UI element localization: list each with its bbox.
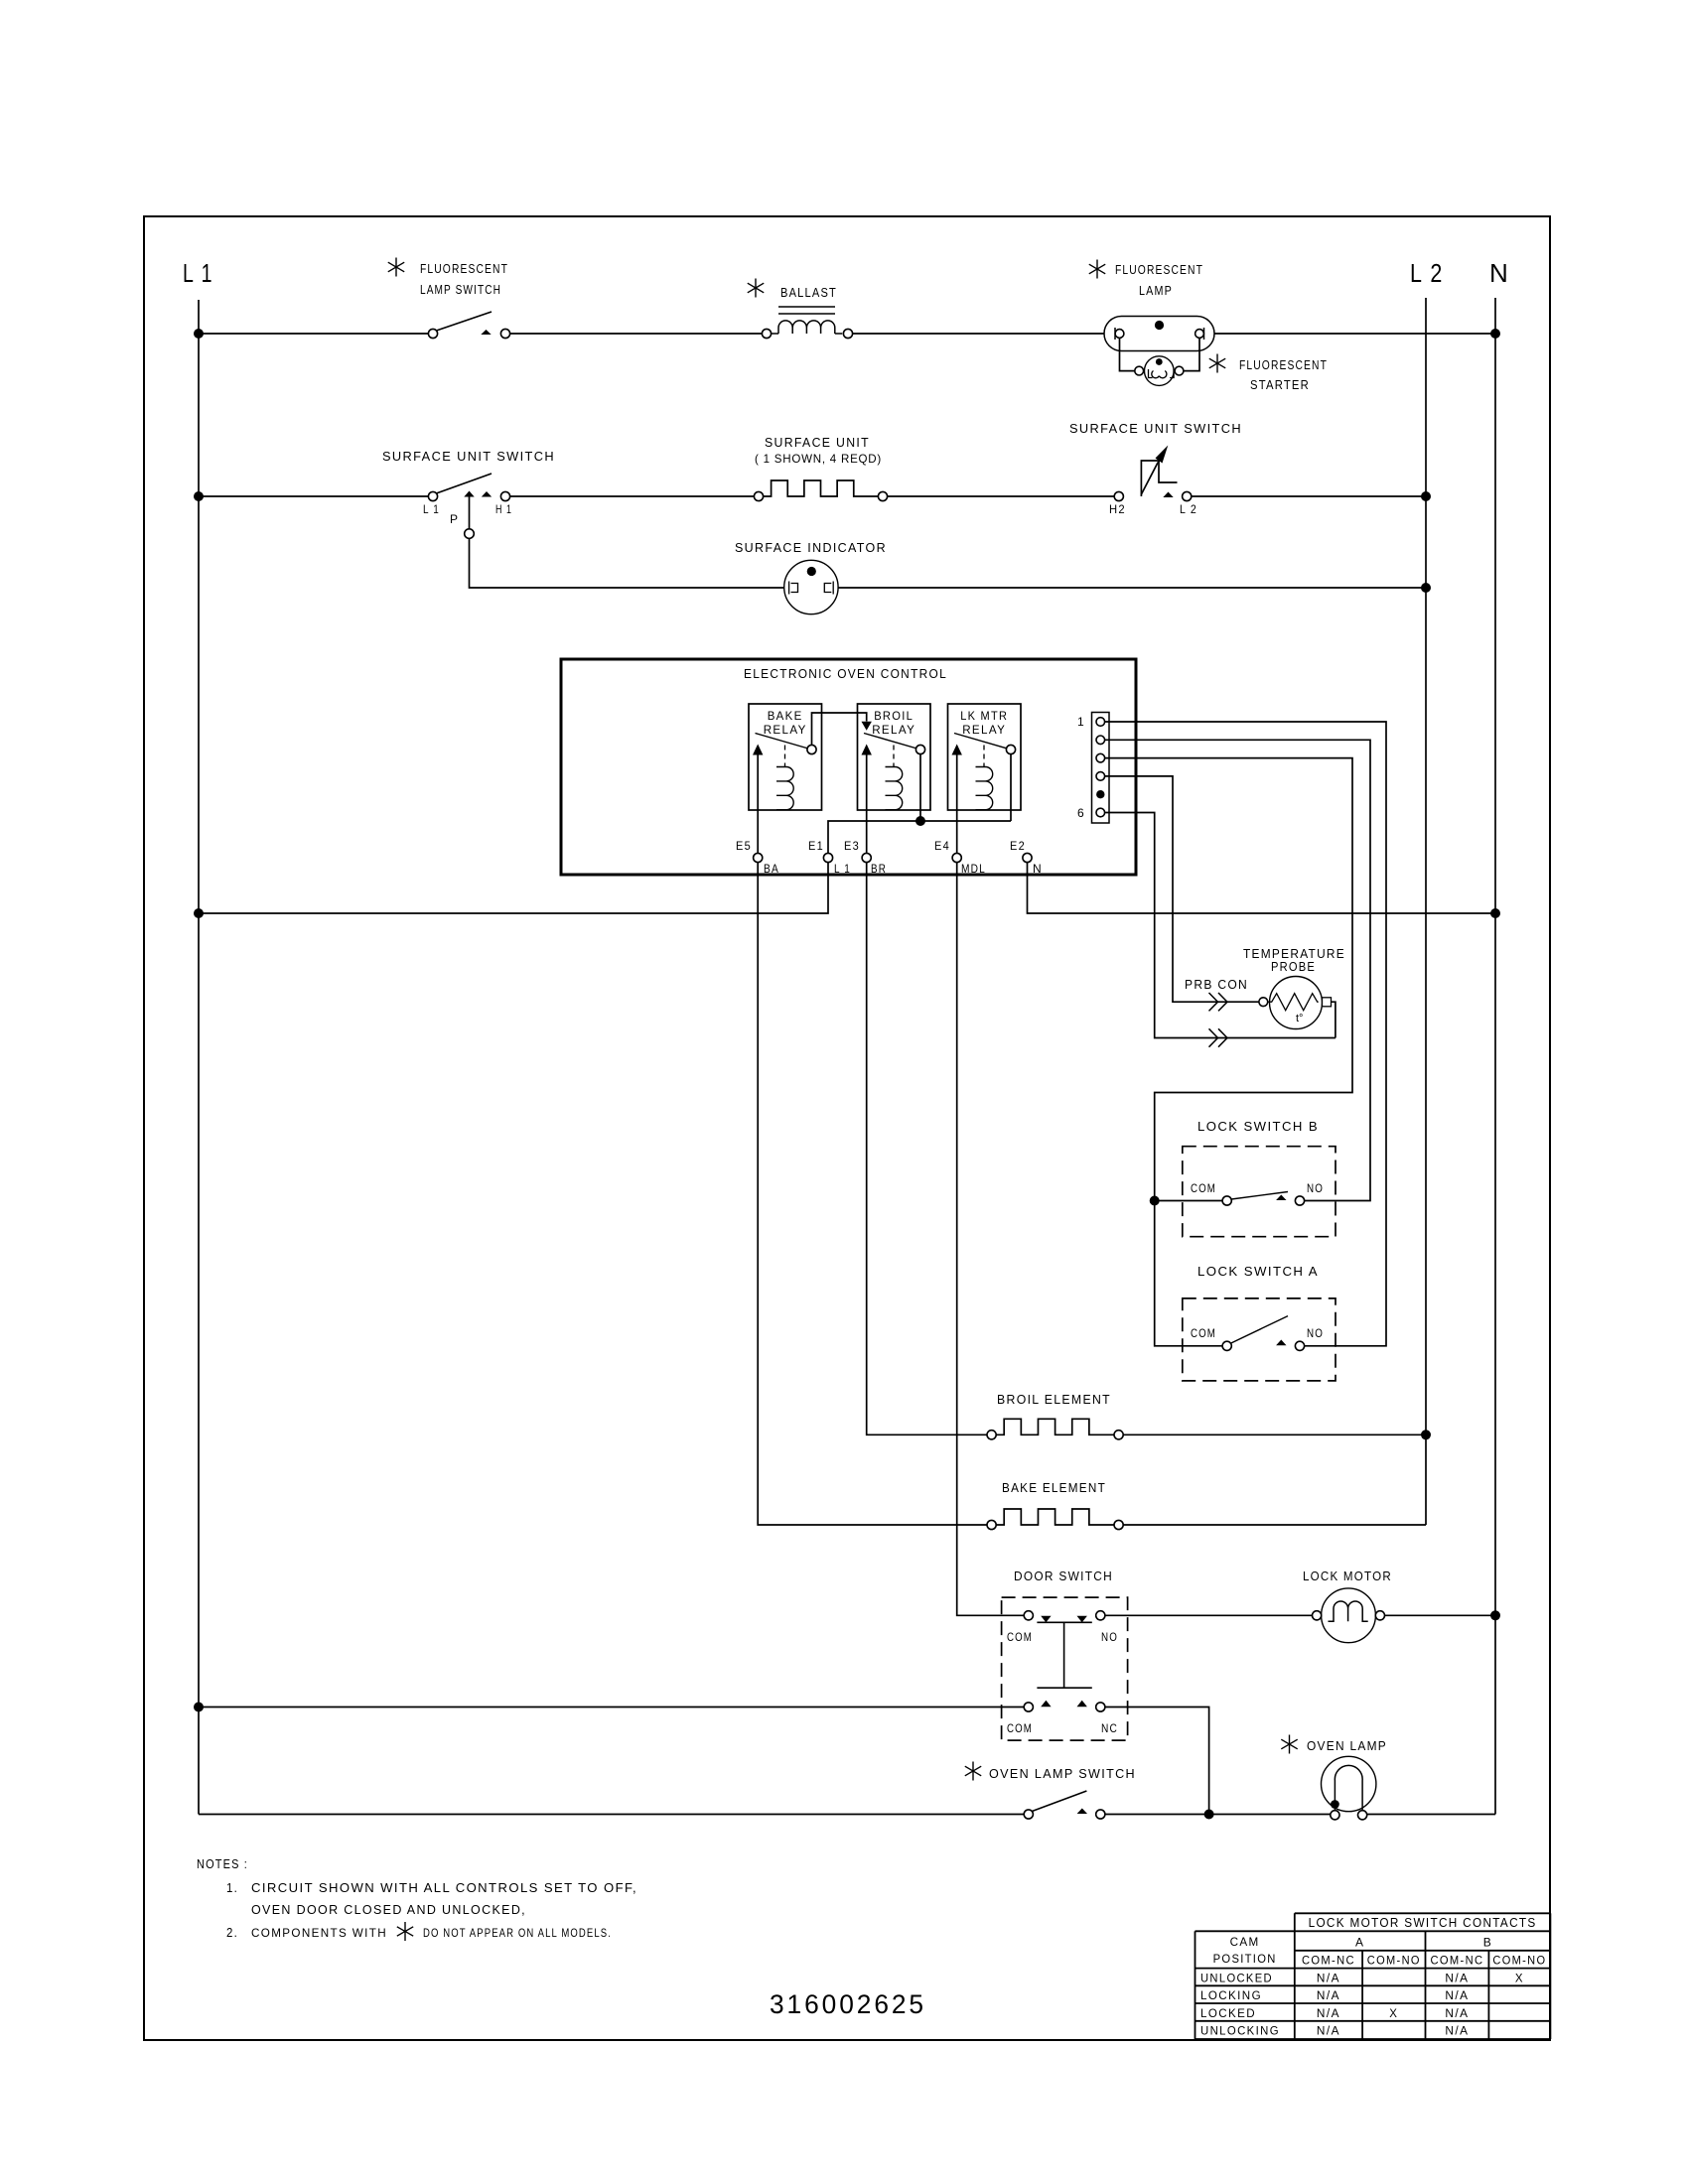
surface unit element: [754, 491, 763, 500]
svg-text:N/A: N/A: [1445, 1990, 1469, 2002]
svg-text:BROIL ELEMENT: BROIL ELEMENT: [997, 1392, 1111, 1407]
junction lock switch B common: [1150, 1196, 1160, 1206]
svg-text:SURFACE INDICATOR: SURFACE INDICATOR: [735, 540, 887, 555]
junction L2 indicator row: [1421, 583, 1431, 593]
svg-text:1.: 1.: [226, 1880, 238, 1895]
lock motor: [1322, 1588, 1376, 1643]
svg-text:BAKE: BAKE: [768, 709, 803, 723]
lock switch A contacts: [1222, 1341, 1231, 1350]
connector pin 4: [1096, 772, 1105, 781]
svg-text:COM-NO: COM-NO: [1367, 1956, 1421, 1968]
svg-text:LOCK MOTOR: LOCK MOTOR: [1303, 1569, 1392, 1583]
svg-text:2.: 2.: [226, 1925, 238, 1940]
svg-text:BAKE ELEMENT: BAKE ELEMENT: [1002, 1480, 1106, 1495]
broil relay common wire down to bus: [919, 754, 921, 821]
terminal E4: [952, 853, 961, 862]
svg-text:COM: COM: [1191, 1326, 1216, 1340]
junction door NC / lamp row: [1204, 1810, 1214, 1820]
svg-text:DO NOT APPEAR ON ALL MODELS.: DO NOT APPEAR ON ALL MODELS.: [423, 1926, 612, 1940]
wire E2 to N bus (row y=920): [1028, 863, 1496, 913]
wire switch to L2 bus: [1191, 495, 1426, 497]
fluorescent lamp switch: [435, 312, 492, 332]
svg-text:L 1: L 1: [183, 258, 213, 288]
wire probe return loop: [1332, 1002, 1336, 1037]
svg-text:SURFACE UNIT SWITCH: SURFACE UNIT SWITCH: [1069, 421, 1242, 436]
ballast asterisk: [755, 279, 757, 298]
svg-text:PROBE: PROBE: [1271, 959, 1316, 974]
lk mtr relay coil lead (to terminal E4): [956, 755, 958, 854]
junction L2 broil element: [1421, 1430, 1431, 1439]
wire indicator to L2 bus: [838, 587, 1426, 589]
svg-text:BALLAST: BALLAST: [780, 285, 837, 300]
svg-text:H2: H2: [1109, 502, 1126, 516]
oven lamp asterisk: [1289, 1735, 1291, 1754]
svg-text:COM: COM: [1007, 1721, 1033, 1735]
svg-text:NOTES :: NOTES :: [197, 1856, 248, 1871]
svg-text:SURFACE UNIT SWITCH: SURFACE UNIT SWITCH: [382, 449, 555, 464]
svg-text:L 1: L 1: [834, 862, 851, 876]
bake relay: [749, 704, 822, 810]
ballast L1 (inductor with core): [762, 329, 771, 338]
wire door NO to lock motor: [1105, 1614, 1313, 1616]
junction L2 surface row: [1421, 491, 1431, 501]
connector pin 3: [1096, 753, 1105, 762]
terminal E2: [1023, 853, 1032, 862]
svg-text:COM-NC: COM-NC: [1430, 1956, 1483, 1968]
broil relay coil lead (to terminal E3): [866, 755, 868, 854]
wire lamp to N: [1214, 333, 1495, 335]
svg-text:N/A: N/A: [1445, 1974, 1469, 1985]
lock motor switch contacts table: [1295, 1912, 1551, 1914]
svg-text:PRB CON: PRB CON: [1185, 977, 1248, 992]
temperature probe: [1270, 977, 1323, 1029]
svg-text:L 1: L 1: [423, 502, 440, 516]
probe connector chevrons (feed): [1209, 993, 1228, 1011]
junction broil common on bus: [915, 816, 925, 826]
svg-text:CAM: CAM: [1230, 1935, 1260, 1949]
svg-text:DOOR SWITCH: DOOR SWITCH: [1014, 1569, 1113, 1583]
wire surface unit to right switch: [888, 495, 1115, 497]
lk mtr relay common wire down to bus: [1010, 754, 1012, 821]
wire broil element to L2 bus: [1123, 1433, 1426, 1435]
wire L1 bottom to oven lamp switch: [199, 1814, 1024, 1816]
wire door NC down to lamp row: [1105, 1707, 1209, 1815]
broil element: [987, 1431, 996, 1439]
wire bake element to L2 bus: [1123, 1524, 1426, 1526]
svg-text:ELECTRONIC OVEN CONTROL: ELECTRONIC OVEN CONTROL: [744, 666, 947, 681]
wire lamp pins to starter: [1120, 339, 1135, 371]
svg-text:P: P: [450, 512, 459, 526]
oven lamp switch asterisk: [972, 1762, 974, 1781]
fluorescent starter asterisk: [1216, 354, 1218, 373]
svg-text:t°: t°: [1296, 1013, 1303, 1024]
svg-text:BROIL: BROIL: [874, 709, 914, 723]
wire oven lamp to N bus: [1367, 1814, 1495, 1816]
svg-text:1: 1: [1077, 715, 1085, 729]
bake relay coil lead (to terminal E5): [757, 755, 759, 854]
surface unit switch (left): [435, 474, 492, 494]
svg-text:B: B: [1483, 1936, 1492, 1950]
terminal E1: [823, 853, 832, 862]
svg-text:X: X: [1389, 2008, 1398, 2020]
wire switch to surface unit: [510, 495, 755, 497]
door switch actuator link: [1063, 1622, 1065, 1688]
bake element: [987, 1520, 996, 1529]
wire connector pin3 to lock switches common feed: [1105, 758, 1352, 1346]
svg-text:POSITION: POSITION: [1213, 1952, 1277, 1966]
wire P terminal down to indicator row: [469, 497, 471, 530]
svg-text:UNLOCKED: UNLOCKED: [1200, 1974, 1273, 1985]
svg-text:COM: COM: [1191, 1181, 1216, 1195]
connector pin 1: [1096, 718, 1105, 727]
junction L1 row920: [194, 908, 204, 918]
fluorescent lamp tube: [1104, 317, 1214, 351]
svg-text:( 1 SHOWN, 4 REQD): ( 1 SHOWN, 4 REQD): [755, 452, 882, 466]
wire connector pin4 to probe connector: [1105, 776, 1259, 1002]
svg-text:BR: BR: [871, 862, 887, 876]
svg-text:NO: NO: [1307, 1326, 1324, 1340]
svg-text:NO: NO: [1101, 1630, 1118, 1644]
svg-text:X: X: [1515, 1974, 1524, 1985]
door switch pole 2 (COM-NC): [1024, 1703, 1033, 1711]
wire E5/BA down to bake element: [758, 863, 987, 1525]
wire N vertical bus: [1494, 298, 1496, 1815]
svg-text:A: A: [1355, 1936, 1364, 1950]
svg-text:OVEN LAMP: OVEN LAMP: [1307, 1738, 1387, 1753]
oven lamp switch: [1031, 1791, 1086, 1812]
wire lock motor to N bus: [1385, 1614, 1496, 1616]
connector pin 2: [1096, 736, 1105, 745]
svg-text:RELAY: RELAY: [962, 723, 1006, 737]
wire connector pin2 to lock switch B NO: [1105, 740, 1370, 1200]
svg-text:COM: COM: [1007, 1630, 1033, 1644]
wire L2 vertical bus: [1425, 298, 1427, 1525]
svg-text:E2: E2: [1010, 839, 1026, 853]
svg-text:E3: E3: [844, 839, 860, 853]
oven lamp: [1322, 1756, 1376, 1811]
svg-text:COM-NO: COM-NO: [1492, 1956, 1546, 1968]
wire E4/MDL down to door switch COM: [957, 863, 1024, 1616]
svg-text:LOCKED: LOCKED: [1200, 2008, 1256, 2020]
svg-text:COMPONENTS WITH: COMPONENTS WITH: [251, 1926, 387, 1940]
svg-text:N/A: N/A: [1445, 2008, 1469, 2020]
svg-text:COM-NC: COM-NC: [1302, 1956, 1355, 1968]
svg-text:BA: BA: [764, 862, 779, 876]
svg-text:316002625: 316002625: [770, 1989, 926, 2019]
svg-text:N/A: N/A: [1445, 2026, 1469, 2038]
svg-text:NC: NC: [1101, 1721, 1118, 1735]
svg-text:H 1: H 1: [495, 502, 512, 516]
lock switch A dashed box: [1183, 1298, 1336, 1381]
svg-text:L 2: L 2: [1410, 258, 1444, 288]
wire connector pin6 to probe connector return: [1105, 813, 1336, 1038]
EOC internal bus E1 to relays: [828, 821, 1011, 853]
wire ballast to fluorescent lamp: [853, 333, 1104, 335]
notes asterisk: [404, 1922, 406, 1941]
border frame: [144, 216, 1550, 2040]
svg-text:LK MTR: LK MTR: [960, 709, 1008, 723]
door switch pole 1 (COM-NO): [1024, 1611, 1033, 1620]
fluorescent lamp asterisk: [1096, 260, 1098, 279]
svg-text:N/A: N/A: [1317, 2026, 1340, 2038]
svg-text:E5: E5: [736, 839, 752, 853]
wire L1 to surface unit switch: [199, 495, 428, 497]
terminal E3: [862, 853, 871, 862]
wire L1 to door switch COM (bottom pole): [199, 1706, 1024, 1708]
svg-text:N/A: N/A: [1317, 2008, 1340, 2020]
svg-text:MDL: MDL: [961, 862, 986, 876]
wire E3/BR down to broil element: [867, 863, 987, 1435]
fluorescent lamp switch asterisk: [395, 258, 397, 277]
wire L1 vertical bus: [198, 300, 200, 1815]
svg-text:STARTER: STARTER: [1250, 377, 1310, 392]
svg-text:L 2: L 2: [1180, 502, 1197, 516]
svg-text:N: N: [1033, 862, 1043, 876]
svg-text:FLUORESCENT: FLUORESCENT: [420, 261, 508, 276]
svg-text:6: 6: [1077, 806, 1085, 820]
wire E1 to L1 bus (row y=920): [199, 863, 828, 913]
probe connector chevrons (return): [1209, 1028, 1228, 1046]
svg-text:OVEN LAMP SWITCH: OVEN LAMP SWITCH: [989, 1766, 1136, 1781]
EOC connector J1: [1092, 713, 1110, 824]
junction L1 surface row: [194, 491, 204, 501]
lk mtr relay: [948, 704, 1022, 810]
svg-text:LOCK MOTOR SWITCH CONTACTS: LOCK MOTOR SWITCH CONTACTS: [1309, 1916, 1537, 1930]
svg-text:SURFACE UNIT: SURFACE UNIT: [765, 435, 870, 450]
svg-text:LOCK SWITCH B: LOCK SWITCH B: [1197, 1119, 1319, 1134]
electronic oven control box: [561, 659, 1136, 875]
svg-text:LAMP SWITCH: LAMP SWITCH: [420, 282, 501, 297]
svg-text:N/A: N/A: [1317, 1974, 1340, 1985]
wire oven lamp switch to junction: [1105, 1814, 1331, 1816]
svg-text:LOCKING: LOCKING: [1200, 1990, 1262, 2002]
svg-text:RELAY: RELAY: [764, 723, 807, 737]
surface unit switch (right, infinite switch): [1114, 491, 1123, 500]
svg-text:RELAY: RELAY: [872, 723, 915, 737]
connector pin 6: [1096, 808, 1105, 817]
svg-text:FLUORESCENT: FLUORESCENT: [1115, 262, 1203, 277]
door switch dashed box: [1002, 1597, 1128, 1740]
wire L1 to fluorescent lamp switch: [199, 333, 428, 335]
svg-text:N/A: N/A: [1317, 1990, 1340, 2002]
junction L1 top row: [194, 329, 204, 339]
lock switch B contacts: [1222, 1196, 1231, 1205]
svg-text:N: N: [1489, 258, 1508, 288]
svg-text:CIRCUIT SHOWN WITH ALL CONTROL: CIRCUIT SHOWN WITH ALL CONTROLS SET TO O…: [251, 1880, 637, 1895]
fluorescent starter: [1145, 356, 1175, 386]
junction N lock motor row: [1490, 1610, 1500, 1620]
terminal E5: [754, 853, 763, 862]
junction N top row: [1490, 329, 1500, 339]
svg-text:E1: E1: [808, 839, 824, 853]
svg-text:E4: E4: [934, 839, 950, 853]
svg-text:NO: NO: [1307, 1181, 1324, 1195]
bake relay common wire to broil relay: [812, 713, 867, 745]
broil relay: [858, 704, 931, 810]
svg-text:UNLOCKING: UNLOCKING: [1200, 2026, 1280, 2038]
svg-text:LOCK SWITCH A: LOCK SWITCH A: [1197, 1264, 1319, 1279]
svg-text:FLUORESCENT: FLUORESCENT: [1239, 357, 1328, 372]
surface indicator: [784, 560, 838, 614]
wire junction to lock switch B common: [1155, 1200, 1222, 1202]
wire switch to ballast: [510, 333, 763, 335]
junction N row920: [1490, 908, 1500, 918]
junction L1 door COM: [194, 1703, 204, 1712]
svg-text:LAMP: LAMP: [1139, 283, 1173, 298]
svg-text:OVEN DOOR CLOSED AND UNLOCKED,: OVEN DOOR CLOSED AND UNLOCKED,: [251, 1902, 526, 1917]
lock switch B dashed box: [1183, 1147, 1336, 1237]
wire connector pin1 to lock switch A NO: [1105, 722, 1386, 1346]
connector pin 5 (plugged): [1096, 790, 1104, 798]
